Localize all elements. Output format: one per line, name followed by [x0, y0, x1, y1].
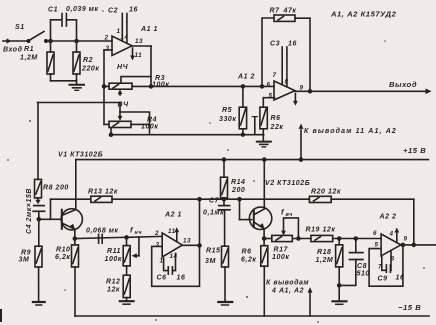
- op-amp U A2.1: [162, 233, 182, 257]
- capacitor C7: [218, 199, 230, 246]
- wire down to V2 base: [240, 199, 252, 219]
- switch S1: [27, 32, 47, 43]
- wire A2.1 output: [182, 244, 199, 246]
- polarity arrow above C4: [35, 200, 40, 205]
- resistor R18: [336, 237, 343, 285]
- paper grain: [0, 0, 1, 1]
- input terminal arrow: [3, 38, 12, 43]
- resistor R1: [47, 41, 54, 81]
- pin 11 arrow of A2.1: [174, 227, 179, 241]
- resistor R10: [72, 239, 79, 316]
- wire V2 emitter node: [263, 237, 272, 240]
- ground under R18: [333, 301, 347, 304]
- R3 lower wiper arrow: [118, 89, 123, 95]
- capacitor C9: [382, 251, 391, 273]
- resistor R2: [73, 41, 80, 84]
- wire A1.1 output: [132, 46, 153, 88]
- capacitor 0,068 mk: [99, 234, 103, 243]
- ground under R6: [257, 142, 271, 147]
- capacitor C6: [164, 253, 176, 274]
- resistor R20: [309, 196, 331, 202]
- left edge smudge: [0, 311, 2, 320]
- wire R20 feedback corner: [412, 199, 415, 246]
- resistor R16: [261, 239, 268, 317]
- wire A1.2 output to Выход: [295, 89, 432, 95]
- pins 11 supply arrow: [299, 124, 304, 160]
- ground under R2: [70, 85, 85, 91]
- capacitor C4: [33, 206, 44, 247]
- resistor R5: [239, 86, 246, 134]
- resistor R8: [35, 103, 42, 201]
- wire A1.2 pin 5: [263, 97, 274, 99]
- resistor R7 feedback: [262, 15, 312, 93]
- wire switch to op-amp pin 2: [46, 40, 112, 43]
- ground under R15: [218, 302, 232, 305]
- pin 4 arrow of A1.2: [293, 94, 298, 106]
- potentiometer R3: [104, 83, 151, 89]
- signal ground bus wire: [111, 133, 264, 136]
- capacitor C2: [122, 14, 127, 44]
- wire A2.2 output to edge: [401, 244, 436, 246]
- transistor V2: [249, 160, 271, 239]
- pins 4 supply arrow (bottom): [308, 287, 313, 316]
- potentiometer R4: [104, 121, 150, 127]
- ground under R12: [120, 301, 134, 304]
- capacitor C1: [51, 14, 77, 42]
- wire R3 node to A1.2 pin 6: [151, 85, 274, 88]
- ground under R9: [33, 302, 45, 305]
- wire R18/C8 to ground: [338, 285, 340, 301]
- potentiometer R17: [272, 235, 311, 241]
- resistor R13: [91, 196, 112, 202]
- wire pin 3 lead and node vertical: [103, 50, 113, 124]
- wire input to switch: [11, 40, 28, 42]
- op-amp U A2.2: [381, 234, 401, 256]
- R3 wiper loop: [121, 77, 151, 84]
- wire down to V1 base: [37, 199, 62, 221]
- op-amp U A1.2: [274, 81, 295, 100]
- resistor R14: [221, 160, 228, 200]
- A2.1 feedback box (pin3 loop): [152, 199, 201, 286]
- R11 wiper arrow (f LF adjust): [132, 237, 139, 258]
- capacitor C8: [338, 237, 363, 287]
- resistor R11: [123, 236, 130, 275]
- resistor R12: [123, 275, 130, 301]
- capacitor C3: [282, 47, 287, 87]
- R4 bottom tap: [110, 128, 113, 137]
- A2.2 feedback box (pin5 loop): [369, 243, 404, 286]
- wire V1 collector to rail: [75, 160, 77, 210]
- +15V rail: [76, 158, 429, 161]
- wire V1 emitter node: [73, 236, 162, 240]
- resistor R6: [260, 98, 267, 141]
- resistor R15: [222, 246, 229, 301]
- wire R1 bottom to R2 bottom: [51, 80, 77, 82]
- op-amp U A1.1: [112, 36, 132, 56]
- trimmer tick near R6: [252, 117, 257, 135]
- long bias wire (R13/R20 line): [51, 198, 414, 201]
- resistor R9: [35, 246, 42, 301]
- pin 11 arrow of A1.1: [130, 48, 135, 61]
- R17 wiper loop (f HF adjust): [281, 218, 298, 239]
- -15V rail: [75, 315, 429, 317]
- transistor V1: [61, 209, 82, 239]
- R4 wiper loop: [118, 112, 150, 135]
- wire tone tap to V1 input column: [38, 103, 121, 113]
- pin 4 arrow of A2.2: [394, 228, 399, 242]
- resistor R19: [311, 235, 381, 241]
